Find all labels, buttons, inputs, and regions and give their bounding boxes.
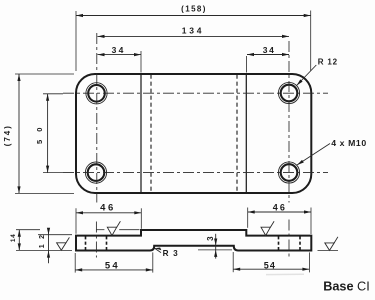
dimension 46 left (76, 203, 141, 234)
step edge line left (140, 75, 142, 193)
svg-text:34: 34 (263, 45, 276, 55)
svg-text:46: 46 (100, 203, 116, 214)
hidden hole lines right block (278, 236, 280, 250)
hole bottom-right (278, 162, 299, 183)
svg-text:54: 54 (105, 260, 120, 271)
dimension 14 (10, 230, 139, 251)
svg-text:R 12: R 12 (318, 57, 338, 66)
svg-text:4 x M10: 4 x M10 (331, 138, 367, 148)
svg-text:3: 3 (206, 236, 215, 241)
svg-text:46: 46 (273, 203, 287, 213)
svg-text:50: 50 (35, 120, 44, 144)
dimension 12 (38, 228, 72, 264)
plate outline (rounded rectangle) (76, 74, 311, 193)
centerline vertical left holes (96, 33, 98, 203)
hole top-left (86, 83, 107, 104)
surface finish symbol on left block (107, 221, 120, 235)
dimension 46 right (248, 203, 311, 235)
hole top-right (278, 82, 299, 103)
svg-text:34: 34 (112, 45, 126, 55)
hidden edge dashed right (236, 75, 238, 193)
svg-text:Base CI: Base CI (323, 280, 370, 294)
centerline horizontal top holes (63, 92, 328, 94)
svg-text:134: 134 (182, 25, 205, 35)
svg-text:12: 12 (39, 230, 46, 249)
profile outline (76, 230, 311, 251)
dimension (158) (76, 4, 311, 71)
dimension 50 (35, 94, 63, 173)
svg-text:14: 14 (10, 234, 17, 242)
label 4 x M10 with leader (297, 138, 367, 165)
surface finish symbol on right block (261, 221, 274, 235)
dimension 54 left (75, 252, 153, 272)
svg-text:(74): (74) (3, 124, 12, 146)
label R 3 with leader (155, 248, 179, 259)
centerline vertical right (front) (288, 220, 290, 259)
svg-text:(158): (158) (181, 4, 207, 13)
dimension 34 left (98, 45, 142, 73)
hidden edge dashed left (150, 75, 152, 193)
centerline vertical left (front) (95, 222, 97, 258)
hole bottom-left (85, 162, 106, 183)
dimension 3 (198, 234, 232, 259)
centerline vertical right holes (288, 41, 290, 203)
dimension (74) (3, 74, 74, 193)
centerline horizontal bottom holes (63, 172, 328, 174)
hidden hole lines left block (85, 236, 87, 250)
dimension 134 (98, 25, 290, 38)
svg-text:54: 54 (264, 260, 276, 270)
svg-text:R 3: R 3 (163, 249, 179, 258)
surface finish symbol right outside (318, 237, 339, 251)
label R 12 with leader (297, 57, 338, 85)
dimension 54 right (233, 252, 309, 272)
dimension 34 right (247, 45, 289, 73)
surface finish symbol left outside (57, 237, 70, 250)
step edge line right (245, 75, 247, 193)
